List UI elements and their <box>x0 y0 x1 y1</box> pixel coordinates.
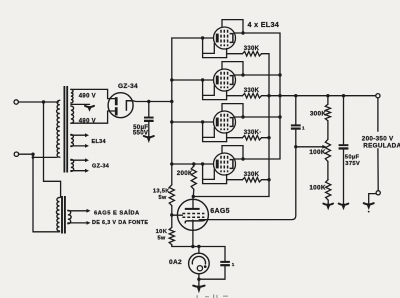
node V4 plate junction <box>201 162 204 165</box>
resistor 13,5K 5w <box>169 185 174 206</box>
wire V4 grid to resistor <box>227 179 243 181</box>
node rail T4 <box>170 162 173 165</box>
wire V4 cathode lead <box>234 158 280 160</box>
wire sense down-left <box>199 147 296 220</box>
node 0A2 anode junction <box>197 245 200 248</box>
resistor 300K <box>325 104 330 121</box>
label 5w b <box>157 236 165 242</box>
pass tube EL34 V2 envelope <box>214 69 236 91</box>
wire terminal A to primary <box>18 101 58 103</box>
node bus 50uF375 <box>342 94 345 97</box>
EL34 V4 plate bar <box>216 160 219 169</box>
node chain T2 <box>267 94 270 97</box>
wire EL34 heater top arrow <box>71 133 89 137</box>
label 6AG5 <box>210 208 230 215</box>
GZ-34 anode 1 <box>115 97 118 105</box>
EL34 V2 cathode bracket <box>230 76 233 85</box>
ground bottom right <box>364 203 374 212</box>
wire V1 cathode lead <box>234 32 280 34</box>
svg-text:10K: 10K <box>156 229 168 235</box>
wire 0A2 anode lead <box>198 247 200 254</box>
wire 200K top lead <box>193 164 195 167</box>
svg-text:GZ-34: GZ-34 <box>118 83 138 90</box>
label REGULADA <box>363 143 400 150</box>
wire output bus <box>262 95 376 97</box>
wire output terminal down 2 <box>377 149 379 191</box>
label 330K V2 <box>244 88 260 94</box>
label DE 6,3V DA FONTE <box>92 220 148 226</box>
6AG5 grid 1 <box>182 213 204 215</box>
node V1 cathode junction <box>241 31 244 34</box>
svg-text:4 x EL34: 4 x EL34 <box>248 20 280 29</box>
page caption remnant <box>197 294 229 298</box>
wire V1 plate lead <box>172 37 214 39</box>
6AG5 grid 2 <box>182 216 204 218</box>
capacitor 1 bypass <box>220 261 230 266</box>
transformer T2 secondary 6.3V winding <box>68 210 71 223</box>
wire V4 top jumper <box>222 146 243 159</box>
node chain T4 <box>267 178 270 181</box>
node 6AG5 grid junction <box>170 213 173 216</box>
wire 300K top lead <box>327 96 329 105</box>
EL34 V3 grids <box>221 114 228 131</box>
capacitor 50uF 375V <box>339 144 349 149</box>
resistor 330K V3 <box>243 135 262 140</box>
wire 0A2 cathode lead <box>198 274 200 279</box>
svg-text:6AG5 E SAÍDA: 6AG5 E SAÍDA <box>94 209 140 217</box>
wire 6.3V top arrow <box>68 209 91 213</box>
wire upper primary bottom lead <box>33 156 57 158</box>
resistor 200K <box>191 166 196 189</box>
wire 300K to pot <box>327 121 329 140</box>
label 50uF375 <box>345 155 360 161</box>
label 330K V4 <box>244 172 260 178</box>
EL34 V4 grids <box>221 156 228 173</box>
pass tube EL34 V4 envelope <box>214 153 236 175</box>
wire 330K V1 to chain <box>262 53 270 55</box>
wire V2 grid bottom lead <box>226 91 228 100</box>
wire 200K bottom lead <box>192 189 195 196</box>
node rail T2 <box>170 78 173 81</box>
svg-text:GZ-34: GZ-34 <box>92 164 110 170</box>
wire bypass cap down <box>224 247 226 262</box>
capacitor 0.1 mid <box>291 124 301 129</box>
label 330K V1 <box>244 46 260 52</box>
wire 330K V4 to chain <box>262 179 270 181</box>
wire 50uF375 top lead <box>343 96 345 145</box>
6AG5 cathode <box>185 220 205 224</box>
wire V3 plate tie-up <box>203 128 215 138</box>
wire raw B+ from cathode <box>133 100 172 103</box>
node cathode rail T2 <box>278 73 281 76</box>
GZ-34 cathode <box>126 101 132 111</box>
label 1 bypass cap <box>232 262 235 267</box>
node primary A junction <box>42 100 45 103</box>
node chain T3 <box>267 136 270 139</box>
regulator tube 0A2 envelope <box>189 253 210 274</box>
svg-text:5w: 5w <box>158 195 166 201</box>
svg-text:REGULADA: REGULADA <box>363 143 400 150</box>
wire 13.5K to grid node <box>171 206 173 215</box>
node raw B+ rail junction <box>170 100 173 103</box>
wire V2 top jumper <box>222 62 243 75</box>
transformer T1 primary winding <box>57 100 60 157</box>
wire V3 cathode lead <box>234 116 280 118</box>
svg-text:330K: 330K <box>244 46 260 52</box>
wire terminal B down-branch <box>33 154 60 232</box>
ground under 50uF375 <box>339 204 349 211</box>
transformer T1 secondary 490V-2 winding <box>71 106 74 123</box>
svg-text:300K: 300K <box>310 111 327 118</box>
wire V2 plate lead <box>172 79 214 81</box>
wire wiper arrow <box>296 145 327 149</box>
0A2 cathode circle <box>197 266 202 271</box>
node V3 plate junction <box>201 120 204 123</box>
resistor 330K V4 <box>243 177 262 182</box>
wire output terminal down 1 <box>377 98 379 131</box>
wire V2 plate tie-up <box>203 86 215 96</box>
node V1 plate junction <box>201 36 204 39</box>
label GZ-34 <box>118 83 138 90</box>
wire primary A down-branch <box>44 102 61 197</box>
EL34 V2 plate bar <box>216 76 219 85</box>
ground under 50uF550V <box>144 136 154 143</box>
wire 6AG5 cathode lead <box>192 220 194 247</box>
label 330K V3 <box>244 130 262 136</box>
node filter cap junction <box>147 100 150 103</box>
wire 50uF375 bottom lead <box>343 150 345 204</box>
svg-text:1: 1 <box>232 262 235 267</box>
wire V3 grid bottom lead <box>226 133 228 142</box>
transformer T1 heater winding GZ-34 <box>71 159 74 171</box>
wire 6AG5 plate to chain <box>193 196 269 198</box>
node cathode rail bus <box>278 94 281 97</box>
input terminal A <box>14 100 18 104</box>
svg-text:13,5K: 13,5K <box>153 189 170 195</box>
wire 6AG5 grid left lead <box>172 214 183 216</box>
wire EL34 heater bottom arrow <box>71 144 89 148</box>
svg-text:550V: 550V <box>133 130 149 137</box>
EL34 V2 grids <box>221 72 228 89</box>
label 10K <box>156 229 168 235</box>
wire V2 plate tie-down <box>203 80 227 100</box>
wire 490V-1 top lead <box>71 89 115 98</box>
output terminal + <box>376 94 380 98</box>
wire grid chain vertical <box>268 54 270 197</box>
transformer T1 heater winding EL34 <box>71 135 73 147</box>
node cathode rail T3 <box>278 115 281 118</box>
wire sense branch top <box>295 96 297 125</box>
label 490 V (upper) <box>79 94 96 100</box>
svg-text:490 V: 490 V <box>79 94 96 100</box>
label 490 V (lower) <box>79 119 96 125</box>
wire 330K V3 to chain <box>262 137 270 139</box>
svg-text:490 V: 490 V <box>79 119 96 125</box>
svg-text:0A2: 0A2 <box>169 259 182 266</box>
node 6AG5 cathode junction <box>191 245 194 248</box>
svg-text:DE 6,3 V DA FONTE: DE 6,3 V DA FONTE <box>92 220 148 226</box>
wire V4 plate tie-up <box>203 170 215 180</box>
transformer T1 core <box>64 86 67 173</box>
label 200K <box>177 170 193 177</box>
ground center tap <box>85 106 94 112</box>
label 0A2 <box>169 259 182 266</box>
label 100K lower <box>309 185 326 192</box>
label 1 mid cap <box>302 125 305 130</box>
node V2 cathode junction <box>241 73 244 76</box>
wire terminal - to ground <box>369 194 376 204</box>
label 50uF <box>133 124 148 131</box>
label 200-350 V <box>362 136 394 143</box>
node 0A2 ground junction <box>197 278 200 281</box>
wire center tap <box>71 103 90 105</box>
wire terminal B right <box>19 153 35 156</box>
wire V1 grid to resistor <box>227 53 243 55</box>
svg-text:330K·: 330K· <box>244 130 262 136</box>
wire 6AG5 plate stub <box>192 197 194 200</box>
node 6AG5 plate junction <box>192 195 195 198</box>
resistor 100K lower <box>326 180 331 201</box>
resistor 330K V2 <box>243 93 262 98</box>
svg-text:330K: 330K <box>244 172 260 178</box>
ground under 0A2 <box>193 286 204 294</box>
wire 100K to ground <box>327 200 329 204</box>
transformer T2 core <box>62 196 65 234</box>
input terminal B <box>14 152 18 156</box>
wire V1 grid bottom lead <box>226 49 228 58</box>
node 200K top <box>192 162 195 165</box>
svg-text:100K: 100K <box>309 149 326 156</box>
svg-text:330K: 330K <box>244 88 260 94</box>
wire 6.3V bottom arrow <box>68 221 91 225</box>
EL34 V3 cathode bracket <box>230 118 233 127</box>
pass tube EL34 V1 envelope <box>214 27 236 49</box>
wire sense branch mid <box>295 130 297 147</box>
label 13,5K <box>153 189 170 195</box>
EL34 V3 plate bar <box>216 118 219 127</box>
capacitor 50uF 550V <box>144 117 154 122</box>
wire V4 grid bottom lead <box>226 175 228 184</box>
label 375V <box>345 161 360 167</box>
label 5w a <box>158 195 166 201</box>
potentiometer 100K <box>325 139 330 161</box>
label GZ-34 winding <box>92 164 110 170</box>
output terminal - <box>376 191 380 195</box>
label 4 x EL34 <box>248 20 280 29</box>
wire V1 plate tie-up <box>203 44 215 54</box>
wire cap 50uF550V top lead <box>148 102 150 117</box>
label 6AG5 E SAIDA <box>94 209 140 217</box>
wire raw B+ rail vertical <box>171 38 173 164</box>
EL34 V1 grids <box>221 30 228 47</box>
wire V2 cathode lead <box>234 74 280 76</box>
wire 10K to cathode bus <box>172 245 225 247</box>
label 100K pot <box>309 149 326 156</box>
svg-text:1: 1 <box>302 125 305 130</box>
wire V3 plate lead <box>172 121 214 123</box>
transformer T1 secondary 490V-1 winding <box>71 89 73 103</box>
transformer T2 primary winding <box>56 198 59 232</box>
wire bypass cap bottom <box>199 266 225 279</box>
node bus cap branch <box>294 94 297 97</box>
wire V2 grid to resistor <box>227 95 243 97</box>
wire V3 grid to resistor <box>227 137 243 139</box>
0A2 gas dot <box>204 265 207 268</box>
resistor 330K V1 <box>243 51 262 56</box>
svg-text:6AG5: 6AG5 <box>210 208 230 215</box>
node V4 cathode junction <box>241 157 244 160</box>
rectifier tube GZ-34 envelope <box>108 93 133 118</box>
svg-text:5w: 5w <box>157 236 165 242</box>
pass tube EL34 V3 envelope <box>214 111 236 133</box>
EL34 V4 cathode bracket <box>230 160 233 169</box>
wire V1 top jumper <box>222 20 243 33</box>
wire grid node to 10K <box>171 215 173 227</box>
EL34 V1 plate bar <box>216 34 219 43</box>
GZ-34 anode 2 <box>115 107 118 115</box>
svg-text:EL34: EL34 <box>92 139 107 145</box>
svg-text:375V: 375V <box>345 161 360 167</box>
wire V3 top jumper <box>222 104 243 117</box>
wire V4 plate lead <box>172 163 214 165</box>
svg-text:50µF: 50µF <box>345 155 360 161</box>
wire V3 plate tie-down <box>203 122 227 142</box>
node bus 300K <box>326 94 329 97</box>
wire pot to 100K <box>327 161 329 179</box>
svg-text:200K: 200K <box>177 170 193 177</box>
wire cap 50uF550V bottom lead <box>148 122 150 136</box>
node upper primary bottom <box>32 156 35 159</box>
EL34 V1 cathode bracket <box>230 34 233 43</box>
node wiper junction <box>294 145 297 148</box>
ground under 100K <box>323 204 333 211</box>
label EL34 winding <box>92 139 107 145</box>
wire GZ-34 heater bottom arrow <box>71 169 89 173</box>
wire cathode rail vertical <box>279 33 281 159</box>
node rail T3 <box>170 120 173 123</box>
resistor 10K 5w <box>169 227 174 244</box>
0A2 anode arc <box>192 256 205 264</box>
wire 490V-2 bottom lead <box>71 111 115 123</box>
wire V4 plate tie-down <box>203 164 227 184</box>
node V2 plate junction <box>201 78 204 81</box>
svg-text:100K: 100K <box>309 185 326 192</box>
6AG5 plate <box>185 199 200 209</box>
label 300K <box>310 111 327 118</box>
label 550V <box>133 130 149 137</box>
wire V1 plate tie-down <box>203 38 227 58</box>
amplifier tube 6AG5 envelope <box>177 199 208 230</box>
node V3 cathode junction <box>241 115 244 118</box>
wire rail to 13.5K <box>171 164 173 185</box>
wire 0A2 ground stub <box>198 279 200 285</box>
wire GZ-34 heater top arrow <box>71 158 89 162</box>
